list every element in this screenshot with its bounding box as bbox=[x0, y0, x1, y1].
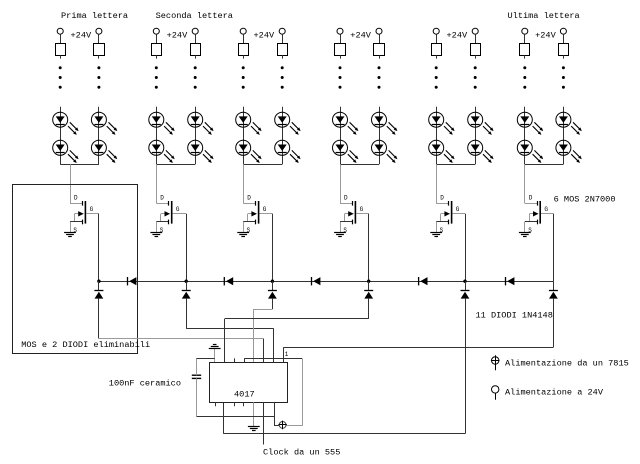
label Alimentazione a 24V bbox=[505, 387, 604, 397]
wire pin5 to 7815 node bbox=[244, 358, 302, 426]
svg-text:Alimentazione a 24V: Alimentazione a 24V bbox=[505, 387, 604, 397]
wire join bar column 2 bbox=[156, 164, 195, 166]
svg-text:11 DIODI 1N4148: 11 DIODI 1N4148 bbox=[476, 310, 553, 320]
wire LED string column 1 left bbox=[60, 107, 62, 164]
resistor column 6 right bbox=[559, 44, 569, 59]
capacitor C1 100nF bbox=[192, 375, 201, 378]
ellipsis dots column 5 left bbox=[435, 66, 438, 88]
wire gate Q3 to bus bbox=[272, 214, 274, 281]
svg-text:Seconda lettera: Seconda lettera bbox=[156, 11, 233, 21]
LED column 3 right upper bbox=[275, 112, 301, 135]
svg-text:Alimentazione da un 7815: Alimentazione da un 7815 bbox=[505, 358, 629, 368]
+24V label column 6 bbox=[535, 30, 556, 40]
+24V supply terminal column 3 right bbox=[279, 28, 285, 43]
svg-text:G: G bbox=[360, 206, 364, 213]
power symbol legend 24V bbox=[492, 386, 499, 400]
ellipsis dots column 2 left bbox=[155, 66, 158, 88]
wire D7 route to 4017 pin2 bbox=[186, 299, 274, 362]
wire LED string column 5 left bbox=[436, 107, 438, 164]
wire gate Q4 to bus bbox=[368, 214, 370, 281]
svg-text:D: D bbox=[344, 195, 348, 202]
ellipsis dots column 3 left bbox=[242, 66, 245, 88]
svg-text:Clock da un 555: Clock da un 555 bbox=[263, 447, 340, 457]
wire D6 route to 4017 pin3 bbox=[99, 299, 264, 362]
ellipsis dots column 4 left bbox=[339, 66, 342, 88]
wire LED string column 2 right bbox=[195, 107, 197, 164]
wire gate Q2 to bus bbox=[186, 214, 188, 281]
svg-text:G: G bbox=[90, 206, 94, 213]
ground above 4017 (pin8) bbox=[209, 345, 221, 349]
svg-text:4017: 4017 bbox=[234, 390, 255, 400]
label MOS e 2 DIODI eliminabili bbox=[21, 340, 150, 350]
ellipsis dots column 3 right bbox=[281, 66, 284, 88]
wire D11 route to 4017 pin1 bbox=[284, 299, 554, 362]
wire LED string column 4 right bbox=[379, 107, 381, 164]
transistor Q2 2N7000 bbox=[156, 195, 186, 234]
wire join bar column 6 bbox=[525, 164, 564, 166]
wire drain feed column 6 bbox=[524, 164, 526, 203]
svg-text:Ultima lettera: Ultima lettera bbox=[508, 11, 580, 21]
diode D7 column feed bbox=[182, 281, 191, 298]
resistor column 2 right bbox=[191, 44, 201, 59]
resistor column 4 right bbox=[374, 44, 385, 59]
ellipsis dots column 1 left bbox=[59, 66, 62, 88]
+24V supply terminal column 6 left bbox=[522, 28, 528, 43]
label 4017 bbox=[234, 390, 255, 400]
label Prima lettera bbox=[61, 11, 128, 21]
svg-text:+24V: +24V bbox=[167, 30, 188, 40]
resistor column 5 left bbox=[432, 44, 442, 59]
wire LED string column 2 left bbox=[156, 107, 158, 164]
LED column 1 right upper bbox=[91, 112, 117, 135]
svg-text:D: D bbox=[440, 195, 444, 202]
label Alimentazione da un 7815 bbox=[505, 358, 629, 368]
wire LED string column 6 left bbox=[524, 107, 526, 164]
wire LED string column 6 right bbox=[563, 107, 565, 164]
wire gate Q5 to bus bbox=[465, 214, 467, 281]
ground Q6 source bbox=[519, 233, 531, 237]
diode D2 series on bus bbox=[224, 277, 233, 285]
ground Q3 source bbox=[237, 233, 249, 237]
wire join bar column 5 bbox=[436, 164, 475, 166]
node bus junction 4 bbox=[367, 280, 370, 283]
svg-text:+24V: +24V bbox=[71, 30, 92, 40]
wire LED string column 5 right bbox=[475, 107, 477, 164]
wire D8 route to 4017 pin4 bbox=[254, 299, 273, 362]
wire pin15 to 7815 node bbox=[274, 402, 279, 426]
wire join bar column 4 bbox=[340, 164, 379, 166]
node bus junction 5 bbox=[463, 280, 466, 283]
LED column 6 left upper bbox=[517, 112, 543, 135]
resistor column 4 left bbox=[335, 44, 346, 59]
wire gate Q6 to bus bbox=[553, 214, 555, 281]
wire drain feed column 2 bbox=[156, 164, 158, 203]
label Clock da un 555 bbox=[263, 447, 340, 457]
ellipsis dots column 5 right bbox=[474, 66, 477, 88]
transistor Q1 2N7000 bbox=[70, 195, 99, 234]
svg-text:D: D bbox=[529, 195, 533, 202]
IC U1 4017 bbox=[210, 363, 288, 403]
svg-text:D: D bbox=[247, 195, 251, 202]
LED column 4 right lower bbox=[372, 140, 398, 163]
ground Q1 source bbox=[64, 233, 76, 237]
pin stub bottom pin12 bbox=[243, 402, 245, 406]
label 6 MOS 2N7000 bbox=[554, 195, 616, 205]
diode D3 series on bus bbox=[312, 277, 321, 285]
+24V supply terminal column 1 right bbox=[96, 28, 102, 43]
LED column 2 left lower bbox=[149, 140, 175, 163]
+24V supply terminal column 6 right bbox=[560, 28, 566, 43]
wire VSS pin8 to ground bbox=[214, 348, 216, 362]
+24V supply terminal column 3 left bbox=[240, 28, 246, 43]
wire drain feed column 1 bbox=[70, 164, 72, 203]
+24V supply terminal column 2 left bbox=[153, 28, 159, 43]
svg-text:+24V: +24V bbox=[535, 30, 556, 40]
LED column 1 left upper bbox=[53, 112, 79, 135]
wire join bar column 3 bbox=[243, 164, 282, 166]
ellipsis dots column 1 right bbox=[97, 66, 100, 88]
diode D4 series on bus bbox=[419, 277, 428, 285]
power symbol 7815 at 4017 bbox=[278, 421, 286, 430]
LED column 3 right lower bbox=[275, 140, 301, 163]
svg-text:G: G bbox=[544, 206, 548, 213]
wire D10 route to 4017 pin10 bbox=[224, 299, 466, 434]
LED column 2 right upper bbox=[188, 112, 214, 135]
LED column 5 left upper bbox=[429, 112, 455, 135]
svg-text:+24V: +24V bbox=[350, 30, 371, 40]
resistor column 5 right bbox=[471, 44, 481, 59]
LED column 2 right lower bbox=[188, 140, 214, 163]
+24V label column 5 bbox=[447, 30, 468, 40]
diode D1 series on bus bbox=[128, 277, 137, 285]
svg-text:MOS e 2 DIODI eliminabili: MOS e 2 DIODI eliminabili bbox=[21, 340, 150, 350]
svg-text:D: D bbox=[74, 195, 78, 202]
resistor column 2 left bbox=[152, 44, 162, 59]
transistor Q4 2N7000 bbox=[340, 195, 369, 234]
label pin 1 bbox=[285, 351, 289, 358]
LED column 4 left upper bbox=[333, 112, 359, 135]
ellipsis dots column 6 right bbox=[562, 66, 565, 88]
pin stub top pin6 bbox=[234, 358, 236, 362]
box MOS e 2 DIODI eliminabili bbox=[13, 185, 138, 354]
diode D8 column feed bbox=[268, 281, 277, 298]
wire LED string column 3 left bbox=[243, 107, 245, 164]
LED column 1 left lower bbox=[53, 140, 79, 163]
svg-text:100nF ceramico: 100nF ceramico bbox=[109, 379, 181, 389]
diode D6 column feed bbox=[94, 281, 103, 298]
resistor column 3 left bbox=[239, 44, 249, 59]
resistor column 6 left bbox=[520, 44, 530, 59]
transistor Q6 2N7000 bbox=[525, 195, 554, 234]
diode D9 column feed bbox=[364, 281, 373, 298]
+24V label column 3 bbox=[254, 30, 275, 40]
LED column 1 right lower bbox=[91, 140, 117, 163]
+24V supply terminal column 5 left bbox=[433, 28, 439, 43]
svg-text:+24V: +24V bbox=[447, 30, 468, 40]
+24V supply terminal column 1 left bbox=[57, 28, 63, 43]
ellipsis dots column 6 left bbox=[523, 66, 526, 88]
resistor column 1 right bbox=[94, 44, 105, 59]
diode D11 column feed bbox=[549, 281, 558, 298]
svg-text:D: D bbox=[160, 195, 164, 202]
ground below 4017 (pin13) bbox=[248, 427, 260, 431]
svg-text:1: 1 bbox=[285, 351, 289, 358]
svg-text:+24V: +24V bbox=[254, 30, 275, 40]
wire LED string column 4 left bbox=[340, 107, 342, 164]
label 100nF ceramico bbox=[109, 379, 181, 389]
wire join bar column 1 bbox=[60, 164, 99, 166]
transistor Q5 2N7000 bbox=[436, 195, 465, 234]
LED column 6 left lower bbox=[517, 140, 543, 163]
wire clock pin14 to 555 bbox=[263, 402, 265, 444]
ellipsis dots column 2 right bbox=[194, 66, 197, 88]
+24V supply terminal column 5 right bbox=[472, 28, 478, 43]
wire C1 bottom to pin10 net bbox=[197, 378, 275, 416]
LED column 4 right upper bbox=[372, 112, 398, 135]
ground Q2 source bbox=[150, 233, 162, 237]
resistor column 1 left bbox=[56, 44, 66, 59]
LED column 6 right upper bbox=[556, 112, 582, 135]
label 11 DIODI 1N4148 bbox=[476, 310, 553, 320]
LED column 5 left lower bbox=[429, 140, 455, 163]
+24V supply terminal column 4 left bbox=[337, 28, 343, 43]
ground Q5 source bbox=[430, 233, 442, 237]
LED column 3 left upper bbox=[236, 112, 262, 135]
pin stub bottom pin9 bbox=[215, 402, 217, 406]
pin stub bottom pin11 bbox=[234, 402, 236, 406]
wire drain feed column 3 bbox=[243, 164, 245, 203]
wire drain feed column 5 bbox=[436, 164, 438, 203]
LED column 6 right lower bbox=[556, 140, 582, 163]
LED column 5 right upper bbox=[468, 112, 494, 135]
+24V supply terminal column 4 right bbox=[376, 28, 382, 43]
+24V label column 4 bbox=[350, 30, 371, 40]
LED column 4 left lower bbox=[333, 140, 359, 163]
svg-text:Prima lettera: Prima lettera bbox=[61, 11, 128, 21]
node bus junction 1 bbox=[97, 280, 100, 283]
svg-text:G: G bbox=[176, 206, 180, 213]
svg-text:G: G bbox=[263, 206, 267, 213]
LED column 3 left lower bbox=[236, 140, 262, 163]
svg-text:G: G bbox=[456, 206, 460, 213]
transistor Q3 2N7000 bbox=[243, 195, 272, 234]
wire pin13 to ground bbox=[253, 402, 255, 426]
wire LED string column 3 right bbox=[282, 107, 284, 164]
+24V label column 2 bbox=[167, 30, 188, 40]
LED column 2 left upper bbox=[149, 112, 175, 135]
resistor column 3 right bbox=[278, 44, 288, 59]
wire drain feed column 4 bbox=[340, 164, 342, 203]
svg-text:6 MOS 2N7000: 6 MOS 2N7000 bbox=[554, 195, 616, 205]
label Ultima lettera bbox=[508, 11, 580, 21]
label Seconda lettera bbox=[156, 11, 233, 21]
ground Q4 source bbox=[334, 233, 346, 237]
wire LED string column 1 right bbox=[98, 107, 100, 164]
node bus junction 3 bbox=[271, 280, 274, 283]
diode D10 column feed bbox=[461, 281, 470, 298]
wire D9 route to 4017 pin7 bbox=[225, 299, 369, 362]
+24V label column 1 bbox=[71, 30, 92, 40]
+24V supply terminal column 2 right bbox=[192, 28, 198, 43]
wire gate Q1 to bus bbox=[98, 214, 100, 281]
LED column 5 right lower bbox=[468, 140, 494, 163]
diode D5 series on bus bbox=[506, 277, 515, 285]
ellipsis dots column 4 right bbox=[378, 66, 381, 88]
node bus junction 2 bbox=[185, 280, 188, 283]
wire diode bus bbox=[99, 281, 554, 283]
power symbol legend 7815 bbox=[491, 355, 500, 370]
wire C1 top to pin8 bbox=[197, 358, 215, 375]
